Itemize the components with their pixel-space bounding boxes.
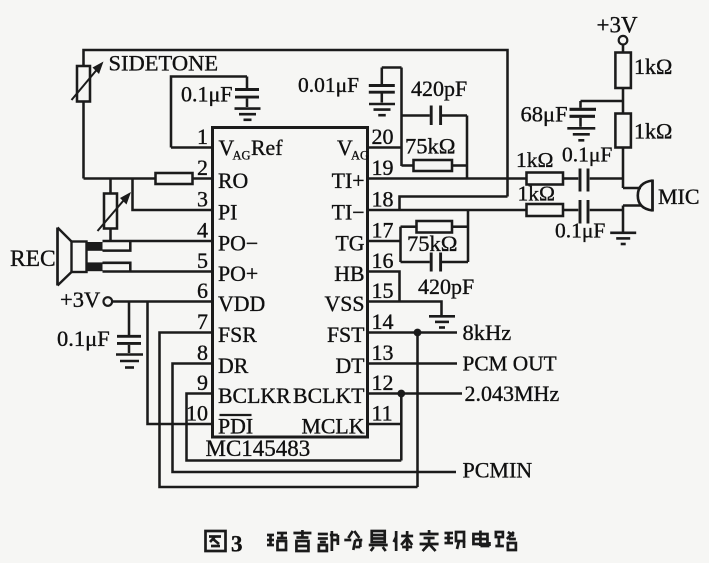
svg-text:PI: PI — [218, 201, 237, 225]
svg-text:PCMIN: PCMIN — [463, 458, 533, 483]
caption glyph 现 — [445, 532, 465, 549]
wire pin13 DT stub — [368, 362, 458, 365]
wire RP2 bottom to PO- wire — [109, 229, 112, 242]
ground for VSS — [429, 315, 455, 318]
ground for C3 — [369, 103, 395, 106]
svg-text:MCLK: MCLK — [302, 415, 365, 439]
capacitor C2 plates — [117, 336, 141, 353]
svg-text:420pF: 420pF — [411, 76, 467, 101]
wire pin12 BCLKT to 2.043MHz — [368, 392, 463, 395]
capacitor C8 68uF lead — [579, 101, 582, 108]
wire +3V to R1 — [622, 45, 625, 53]
svg-text:HB: HB — [334, 262, 364, 286]
svg-text:7: 7 — [197, 309, 208, 334]
wire mic ground drop — [622, 206, 625, 232]
svg-text:TG: TG — [335, 232, 364, 256]
wire pin3 PI to RO node — [133, 179, 213, 211]
wire RO node horizontal — [84, 177, 156, 180]
wire R5 right — [452, 225, 468, 228]
wire R6 to C6 — [563, 177, 578, 180]
svg-text:PCM OUT: PCM OUT — [463, 352, 557, 376]
svg-text:TI+: TI+ — [332, 169, 365, 193]
svg-text:18: 18 — [372, 187, 394, 212]
svg-text:75kΩ: 75kΩ — [407, 231, 457, 256]
ground for C1 — [235, 107, 261, 110]
svg-text:SIDETONE: SIDETONE — [109, 51, 219, 76]
svg-text:5: 5 — [197, 248, 208, 273]
capacitor C1 0.1uF plates — [235, 90, 259, 108]
svg-text:15: 15 — [372, 278, 394, 303]
wire R4 right — [452, 164, 467, 167]
svg-text:FSR: FSR — [218, 323, 257, 347]
wire pin20 VAG stub — [368, 146, 402, 149]
svg-text:DR: DR — [218, 354, 249, 378]
svg-text:0.1μF: 0.1μF — [181, 82, 233, 107]
capacitor C8 68uF plates — [570, 109, 597, 127]
resistor R5 75k body — [417, 221, 453, 233]
svg-text:1kΩ: 1kΩ — [516, 148, 553, 172]
svg-text:420pF: 420pF — [418, 274, 474, 299]
svg-text:+3V: +3V — [60, 287, 100, 312]
wire sidetone top rail — [84, 50, 508, 197]
wire RO node down to RP2 — [109, 179, 112, 194]
wire R5 left — [401, 225, 417, 228]
wire pin1 up-left loop — [171, 77, 247, 148]
wire pin8 DR to PCMIN — [173, 364, 457, 473]
svg-text:8kHz: 8kHz — [463, 320, 512, 345]
svg-text:11: 11 — [372, 401, 393, 426]
capacitor C6 0.1uF plates — [580, 169, 588, 192]
wire pin7 FSR loop — [160, 333, 418, 488]
resistor R1 1k body (vertical) — [615, 53, 631, 89]
wire MCLK riser to BCLKT — [400, 394, 403, 461]
svg-text:FST: FST — [327, 323, 365, 347]
svg-text:PDI: PDI — [218, 415, 253, 439]
capacitor C7 0.1uF plates — [580, 200, 588, 224]
svg-text:2.043MHz: 2.043MHz — [465, 381, 560, 406]
svg-text:VSS: VSS — [325, 292, 365, 316]
wire RC right vertical to TI+ — [466, 116, 469, 179]
caption glyph 路 — [495, 532, 516, 550]
svg-text:9: 9 — [197, 370, 208, 395]
svg-text:68μF: 68μF — [521, 102, 568, 127]
terminal +3V left circle — [104, 297, 113, 306]
wire C6 to mic rail — [590, 177, 623, 180]
wire pin19 TI+ line — [368, 177, 527, 180]
wire R1 to R2 — [622, 88, 625, 115]
capacitor C2 0.1uF (VDD) lead — [128, 302, 131, 336]
svg-text:VDD: VDD — [218, 292, 265, 316]
resistor R3 (RO-PI) body — [156, 173, 193, 184]
wire +3V to pin6 VDD — [112, 300, 212, 303]
caption glyph 图 — [206, 531, 226, 551]
svg-text:14: 14 — [372, 309, 394, 334]
svg-text:AG: AG — [233, 149, 251, 163]
svg-text:BCLKR: BCLKR — [218, 384, 291, 408]
capacitor C4 420pF plates — [431, 106, 440, 126]
wire RC right vertical to TI- — [467, 210, 470, 262]
svg-text:0.01μF: 0.01μF — [298, 73, 359, 97]
svg-text:17: 17 — [372, 218, 394, 243]
ground for MIC — [610, 232, 636, 235]
wire pin18 TI- line — [368, 209, 527, 212]
wire 420pF top rail left — [402, 114, 430, 117]
svg-text:0.1μF: 0.1μF — [57, 326, 110, 351]
svg-text:13: 13 — [372, 340, 394, 365]
wire FST riser down to FSR loop — [416, 333, 419, 488]
svg-text:TI−: TI− — [332, 201, 365, 225]
svg-text:3: 3 — [231, 532, 243, 557]
svg-text:MIC: MIC — [658, 184, 700, 209]
microphone MIC symbol — [638, 180, 653, 212]
wire VAG riser — [400, 68, 403, 167]
svg-text:+3V: +3V — [597, 13, 638, 38]
caption glyph 音 — [293, 530, 311, 551]
resistor R4 75k body — [414, 160, 453, 171]
wire 420pF bottom rail left — [401, 261, 430, 264]
node junction FST dot — [414, 329, 422, 337]
svg-text:1: 1 — [197, 124, 208, 149]
speaker REC symbol — [58, 228, 103, 286]
svg-text:0.1μF: 0.1μF — [562, 143, 612, 167]
svg-text:MC145483: MC145483 — [206, 436, 311, 461]
capacitor C3 plates — [369, 86, 395, 103]
wire R4 left — [402, 164, 414, 167]
svg-text:AG: AG — [351, 149, 369, 163]
wire pin9 BCLKR loop — [187, 394, 402, 461]
svg-text:10: 10 — [186, 401, 208, 426]
svg-text:BCLKT: BCLKT — [293, 384, 364, 408]
wire pin14 FST stub — [368, 331, 458, 334]
terminal +3V right circle — [619, 36, 628, 45]
potentiometer RP1 SIDETONE body — [77, 66, 90, 102]
svg-text:8: 8 — [197, 340, 208, 365]
svg-text:1kΩ: 1kΩ — [634, 54, 672, 79]
svg-text:REC: REC — [10, 246, 56, 272]
wire pin1 VAG Ref stub — [171, 146, 213, 149]
capacitor C3 0.01uF lead — [381, 68, 384, 85]
potentiometer RP1 arrow — [72, 62, 104, 101]
potentiometer RP2 body — [104, 194, 117, 229]
potentiometer RP2 arrow — [98, 192, 132, 231]
svg-text:2: 2 — [197, 155, 208, 180]
svg-text:16: 16 — [372, 248, 394, 273]
resistor R7 1k body — [527, 204, 564, 216]
wire pin11 MCLK stub — [368, 423, 402, 426]
wire R7 to C7 — [563, 209, 578, 212]
wire 420pF top rail right — [442, 114, 467, 117]
resistor R2 1k body (vertical) — [615, 114, 631, 148]
wire R5 left vertical upper — [399, 227, 402, 241]
wire 0.01uF top hook — [382, 66, 402, 69]
svg-text:20: 20 — [372, 124, 394, 149]
capacitor C5 420pF plates — [431, 253, 440, 272]
wire speaker top to pin4 PO- — [103, 241, 213, 251]
caption glyph 分 — [344, 531, 362, 550]
caption glyph 具 — [369, 531, 388, 551]
caption glyph 部 — [318, 531, 338, 551]
wire sidetone feed into TI- — [400, 197, 508, 211]
wire 68uF branch — [581, 100, 624, 103]
svg-text:RO: RO — [218, 169, 248, 193]
wire R3 to pin2 RO — [193, 177, 213, 180]
svg-text:3: 3 — [197, 187, 208, 212]
svg-text:PO+: PO+ — [218, 262, 258, 286]
svg-text:19: 19 — [372, 155, 394, 180]
svg-text:PO−: PO− — [218, 232, 258, 256]
svg-text:1kΩ: 1kΩ — [634, 119, 672, 144]
wire 420pF bottom rail right — [442, 261, 468, 264]
caption glyph 实 — [420, 530, 439, 551]
caption glyph 电 — [473, 531, 489, 547]
wire mic bottom lead — [623, 204, 641, 207]
node junction BCLKT/MCLK dot — [397, 390, 405, 398]
pin 10 label PDI (overline) — [218, 415, 253, 439]
wire mic top lead — [623, 187, 641, 190]
wire speaker bottom to pin5 PO+ — [103, 263, 213, 272]
svg-text:4: 4 — [197, 218, 208, 243]
wire C7 to mic ground rail — [590, 209, 623, 212]
svg-text:1kΩ: 1kΩ — [518, 182, 555, 206]
svg-text:Ref: Ref — [251, 136, 283, 160]
wire pin10 PDI to +3V — [148, 302, 213, 425]
wire RP1 bottom to RO node — [82, 102, 85, 179]
wire R2 down to mic top — [622, 148, 625, 189]
svg-text:6: 6 — [197, 278, 208, 303]
wire pin17 TG stub — [368, 240, 401, 243]
resistor R6 1k body — [527, 173, 564, 185]
svg-text:12: 12 — [372, 370, 394, 395]
ground for C2 — [116, 353, 143, 356]
capacitor C1 0.1uF (VAG Ref) lead — [246, 77, 249, 89]
wire R5 left vertical (TG) — [399, 241, 402, 262]
svg-text:0.1μF: 0.1μF — [555, 219, 605, 243]
caption glyph 体 — [394, 531, 414, 551]
wire pin16 HB to VSS — [368, 272, 400, 302]
svg-text:DT: DT — [335, 354, 364, 378]
svg-text:75kΩ: 75kΩ — [405, 134, 455, 159]
caption glyph 语 — [267, 533, 287, 550]
wire pin15 VSS to ground — [368, 302, 442, 316]
ground for C8 — [567, 127, 595, 130]
op-amp U1 MC145483 codec body — [213, 128, 368, 438]
